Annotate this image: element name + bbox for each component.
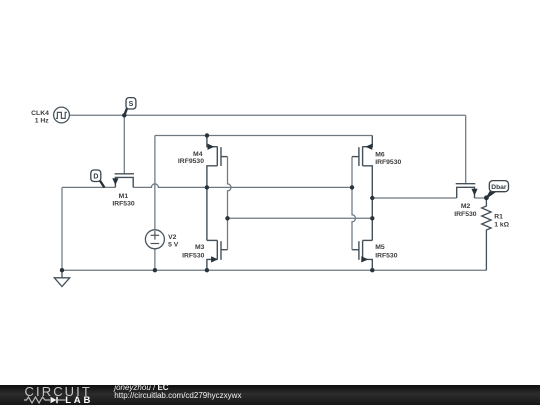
wire V2 minus lead to ground rail [154,249,156,270]
junction M2 wire/drain col right [370,196,374,200]
svg-text:IRF530: IRF530 [375,252,398,259]
resistor R1 [482,198,491,270]
transistor M5 IRF530 [352,240,372,270]
wire ground rail bottom [62,269,486,271]
svg-text:M1: M1 [119,193,129,200]
junction M5 source ground [370,268,374,272]
junction Q/drain col left [205,185,209,189]
junction Q/gate col right [350,185,354,189]
svg-text:Dbar: Dbar [491,184,507,191]
wire Dbar net to R1 [475,197,487,199]
svg-text:D: D [93,174,98,181]
junction M3 source ground [205,268,209,272]
junction S node [122,113,126,117]
wire V2 plus lead to VDD rail [154,136,156,230]
footer username [114,383,168,392]
junction Qbar/drain col right [370,216,374,220]
svg-text:1 Hz: 1 Hz [35,118,50,125]
svg-text:IRF530: IRF530 [182,252,205,259]
svg-text:IRF530: IRF530 [112,200,135,207]
wire D net horizontal [62,186,115,188]
clock square wave glyph [56,112,67,118]
junction Dbar node [484,195,489,200]
transistor M4 IRF9530 [207,136,228,241]
flag D [91,170,105,188]
svg-text:IRF9530: IRF9530 [375,159,401,166]
wire gate column right (M6/M5 gates) with hop over Qbar wire [352,157,356,250]
svg-text:CLK4: CLK4 [31,110,49,117]
wire CLK horizontal net S [69,114,465,116]
svg-text:M5: M5 [375,244,385,251]
CircuitLab logo resistor-diode glyph [24,396,66,404]
wire D net left vertical [61,187,63,270]
junction V2 ground [153,268,157,272]
svg-text:IRF530: IRF530 [454,211,477,218]
footer bar [0,385,540,405]
ground symbol [54,270,69,286]
svg-text:S: S [129,101,134,108]
CircuitLab logo LAB [65,395,93,405]
junction VDD/M4 [205,133,209,137]
transistor M1 IRF530 [113,174,134,188]
svg-text:M6: M6 [375,151,385,158]
wire node Q (y=187.4) with hop over V2 line [133,184,352,187]
svg-text:1 kΩ: 1 kΩ [494,222,509,229]
voltage source V2 [145,230,164,249]
flag S [124,98,136,116]
svg-text:IRF9530: IRF9530 [178,158,204,165]
footer url [114,391,241,400]
transistor M2 IRF530 [456,184,477,198]
svg-text:M3: M3 [195,244,205,251]
svg-text:M2: M2 [461,203,471,210]
junction Qbar/gate col left [225,216,229,220]
svg-text:V2: V2 [168,234,177,241]
svg-text:R1: R1 [494,213,503,220]
wire VDD top rail [155,135,372,137]
CircuitLab logo CIRCUIT [25,384,92,399]
wire M2 gate drop [465,115,467,183]
junction ground left [60,268,64,272]
wire node Qbar (y=218.3) [228,217,373,219]
wire M2 source net (y=198) [372,197,456,199]
transistor M3 IRF530 [207,240,228,270]
svg-text:5 V: 5 V [168,242,179,249]
wire M1 gate from node S [123,115,125,174]
clock source CLK4 circle [54,107,70,123]
wire gate column left (M4/M3 gates) with hop over Q wire [228,157,232,250]
transistor M6 IRF9530 [352,136,372,241]
flag Dbar [487,181,509,198]
